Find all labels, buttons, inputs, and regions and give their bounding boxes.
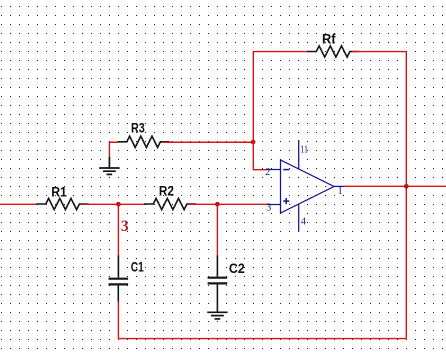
- resistor R2: [144, 198, 196, 209]
- wire R1 to node 3: [82, 203, 118, 205]
- capacitor C2: [208, 256, 228, 312]
- wire node B to op-amp pin3: [217, 203, 267, 205]
- svg-text:4: 4: [301, 216, 306, 227]
- wire input to R1: [0, 203, 37, 205]
- pin 3 lead: [267, 204, 281, 206]
- resistor Rf: [307, 46, 359, 57]
- pin 11 power lead: [298, 140, 300, 169]
- wire C1 to bottom wire: [117, 301, 119, 339]
- svg-text:R3: R3: [131, 121, 145, 136]
- wire feedback left vertical to pin 2: [253, 52, 267, 170]
- svg-text:R2: R2: [159, 184, 174, 199]
- pin 4 power lead: [298, 204, 300, 231]
- capacitor C1: [109, 256, 129, 303]
- wire right vertical output feedback: [405, 52, 407, 339]
- svg-text:C1: C1: [131, 259, 144, 274]
- wire node3 to R2: [118, 203, 146, 205]
- pin 1 output lead: [334, 185, 345, 187]
- svg-text:3: 3: [266, 202, 271, 213]
- wire top to Rf: [253, 51, 308, 53]
- svg-text:C2: C2: [229, 261, 245, 276]
- svg-text:R1: R1: [51, 184, 67, 199]
- resistor R3: [118, 136, 170, 147]
- svg-text:2: 2: [265, 167, 270, 178]
- svg-text:3: 3: [121, 218, 129, 235]
- svg-text:1: 1: [338, 186, 343, 197]
- wire ground to R3: [109, 142, 118, 158]
- wire R2 to node B: [189, 203, 217, 205]
- node 3 junction: [116, 202, 121, 207]
- ground symbol G2: [207, 312, 227, 319]
- wire op-amp output: [344, 185, 446, 187]
- minus sign: [283, 169, 289, 171]
- junction at inverting feedback node: [251, 140, 256, 145]
- wire bottom feedback: [118, 338, 406, 340]
- node B junction: [215, 202, 220, 207]
- output junction: [404, 184, 409, 189]
- svg-text:11: 11: [300, 144, 308, 155]
- triangle body: [281, 160, 335, 213]
- wire Rf to output vertical: [352, 51, 406, 53]
- svg-text:Rf: Rf: [322, 32, 336, 47]
- resistor R1: [37, 198, 89, 209]
- op-amp U1: [267, 140, 345, 231]
- wire node3 down to C1: [117, 204, 119, 256]
- pin 2 lead: [267, 169, 281, 171]
- wire node B down to C2: [216, 204, 218, 256]
- ground symbol G1: [99, 157, 119, 174]
- plus sign: [283, 200, 289, 202]
- wire R3 to inverting node: [163, 141, 254, 143]
